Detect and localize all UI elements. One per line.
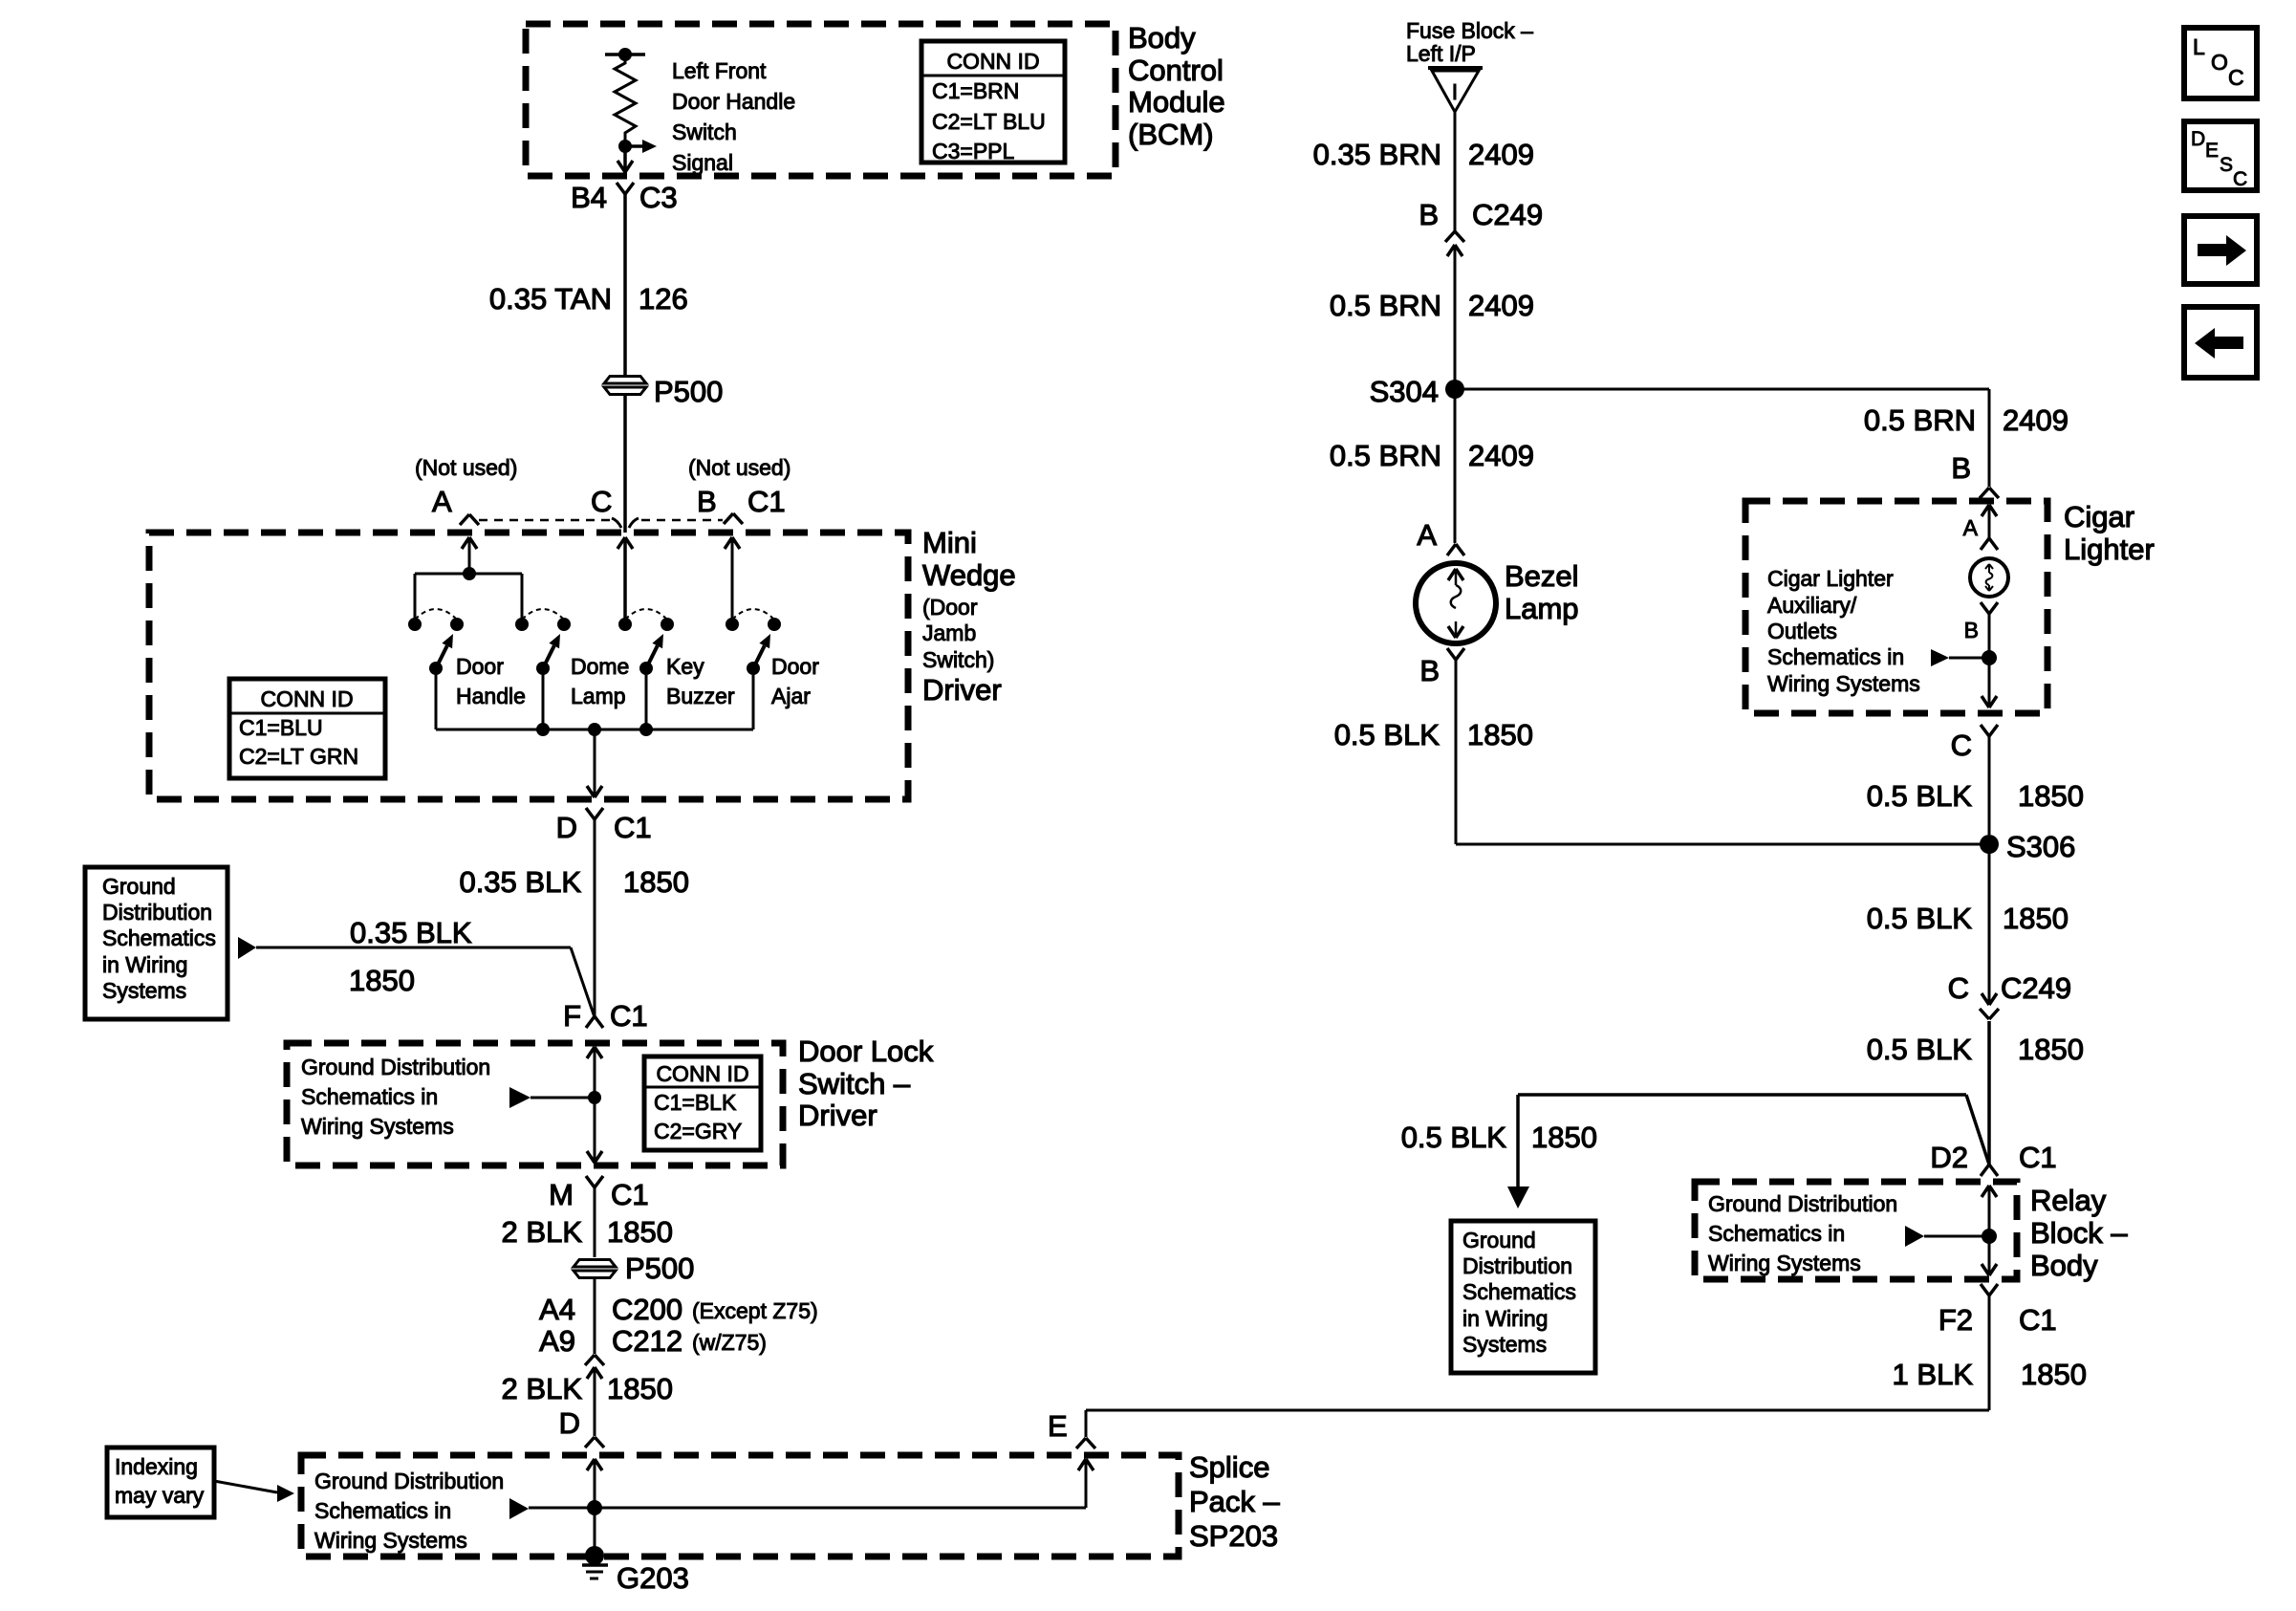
svg-text:0.5 BLK: 0.5 BLK <box>1867 779 1973 813</box>
wire: pin B4 down to P500 (0.35 TAN 126) <box>623 194 627 377</box>
svg-text:Pack –: Pack – <box>1189 1485 1281 1518</box>
svg-text:Systems: Systems <box>1462 1332 1547 1357</box>
svg-text:I: I <box>1452 79 1458 104</box>
Indexing may vary box <box>107 1448 214 1517</box>
CONN ID table (Mini Wedge) <box>229 679 385 778</box>
svg-text:D: D <box>559 1406 580 1440</box>
svg-text:CONN ID: CONN ID <box>656 1061 748 1086</box>
splice pack pin E <box>1048 1409 1095 1448</box>
svg-text:Wiring Systems: Wiring Systems <box>1767 671 1920 696</box>
wire: S304 to bezel lamp (0.5 BRN 2409) <box>1454 245 1457 543</box>
label: 0.5 BRN 2409 second <box>1330 439 1534 472</box>
svg-text:Driver: Driver <box>922 673 1002 707</box>
signal arrow inside BCM <box>625 140 657 153</box>
svg-text:C1=BLK: C1=BLK <box>654 1090 737 1115</box>
svg-text:1850: 1850 <box>2021 1358 2087 1391</box>
svg-text:(Not used): (Not used) <box>688 455 791 480</box>
svg-text:B: B <box>697 485 717 518</box>
svg-text:E: E <box>1048 1409 1068 1443</box>
svg-text:Switch –: Switch – <box>798 1067 911 1100</box>
cigar lighter pin B chevron <box>1980 488 1999 498</box>
svg-text:Mini: Mini <box>922 526 977 559</box>
svg-text:1850: 1850 <box>623 865 689 899</box>
svg-text:Lighter: Lighter <box>2064 533 2155 566</box>
svg-text:1850: 1850 <box>349 964 415 997</box>
svg-text:Jamb: Jamb <box>922 620 976 645</box>
cigar lighter pin A label <box>1963 515 1979 540</box>
svg-text:Outlets: Outlets <box>1767 619 1837 643</box>
svg-text:F: F <box>563 999 581 1033</box>
label: 0.5 BLK 1850 (above S306) <box>1867 779 2084 813</box>
label: 0.35 BLK 1850 <box>459 865 689 899</box>
svg-text:Handle: Handle <box>456 684 526 708</box>
grommet P500 (upper) <box>604 375 723 408</box>
internal reference arrow (Cigar Lighter) <box>1931 649 1989 666</box>
internal reference arrow (Relay Block) <box>1905 1226 1989 1247</box>
cigar lighter pin A entry arrow <box>1982 505 1997 538</box>
label: Dome Lamp <box>571 654 629 708</box>
svg-text:1 BLK: 1 BLK <box>1893 1358 1974 1391</box>
bezel lamp pin B <box>1419 648 1464 687</box>
cigar lighter internal connector fork <box>1981 538 1998 550</box>
pin A label <box>432 485 452 518</box>
LOC icon box <box>2184 28 2257 98</box>
svg-text:Ground: Ground <box>1462 1228 1536 1252</box>
label: 0.35 BRN 2409 <box>1313 138 1534 171</box>
splice S306 <box>1980 830 2075 863</box>
label: (Not used) left <box>415 455 517 480</box>
ground bus wire inside Mini Wedge <box>436 723 753 736</box>
wire: bezel lamp B to S306 (0.5 BLK 1850) <box>1456 660 1989 844</box>
svg-text:C200: C200 <box>612 1293 682 1326</box>
svg-text:B: B <box>1419 198 1439 231</box>
svg-text:Wiring Systems: Wiring Systems <box>1708 1251 1861 1275</box>
cigar lighter element <box>1970 558 2008 597</box>
svg-text:Bezel: Bezel <box>1505 559 1579 593</box>
switch: Door Ajar <box>726 609 781 729</box>
svg-text:E: E <box>2205 140 2219 162</box>
svg-text:0.35 BLK: 0.35 BLK <box>350 916 472 949</box>
svg-text:in Wiring: in Wiring <box>1462 1306 1548 1331</box>
svg-text:Wiring Systems: Wiring Systems <box>314 1528 467 1553</box>
svg-text:Switch: Switch <box>672 120 737 144</box>
connector pin B of C249 <box>1419 198 1543 256</box>
svg-text:C249: C249 <box>1472 198 1543 231</box>
svg-text:0.35 TAN: 0.35 TAN <box>489 282 612 316</box>
label: A9 C212 (w/Z75) <box>539 1324 767 1358</box>
svg-text:Buzzer: Buzzer <box>666 684 735 708</box>
svg-text:in Wiring: in Wiring <box>102 952 187 977</box>
svg-text:Left Front: Left Front <box>672 58 767 83</box>
svg-text:C: C <box>591 485 612 518</box>
wire: bus down to pin D with arrowhead <box>587 729 602 797</box>
label: 0.5 BRN 2409 (above S304) <box>1330 289 1534 322</box>
label: Door Lock Switch - Driver <box>798 1034 934 1132</box>
svg-text:Switch): Switch) <box>922 647 994 672</box>
Ground Distribution Schematics reference box (right) <box>1451 1221 1595 1373</box>
internal splice wire to pin E <box>509 1459 1094 1519</box>
svg-text:Body: Body <box>2030 1249 2098 1282</box>
svg-text:0.35 BRN: 0.35 BRN <box>1313 138 1441 171</box>
svg-text:C: C <box>1948 971 1969 1005</box>
wire: fuse block to C249 (0.35 BRN 2409) <box>1454 112 1457 231</box>
switch: Key Buzzer <box>618 609 674 729</box>
svg-text:Auxiliary/: Auxiliary/ <box>1767 593 1857 618</box>
svg-text:A: A <box>1963 515 1979 540</box>
bezel lamp pin A <box>1417 518 1464 555</box>
svg-text:CONN ID: CONN ID <box>260 686 353 711</box>
label: 0.5 BLK 1850 (branch) <box>1401 1121 1597 1154</box>
svg-text:Cigar Lighter: Cigar Lighter <box>1767 566 1894 591</box>
Splice Pack SP203 outline box <box>301 1455 1179 1557</box>
connector pin M of C1 <box>549 1176 648 1211</box>
svg-text:S306: S306 <box>2006 830 2075 863</box>
splice pack pin D chevron <box>585 1437 604 1448</box>
Door Lock Switch - Driver outline box <box>287 1043 783 1165</box>
svg-text:2409: 2409 <box>1468 289 1534 322</box>
svg-text:Dome: Dome <box>571 654 629 679</box>
svg-text:C: C <box>1951 729 1972 762</box>
arrowhead down to pin B4 <box>617 161 633 172</box>
wire: branch to ground distribution reference <box>1507 1095 1989 1208</box>
svg-text:may vary: may vary <box>115 1483 205 1508</box>
svg-text:Wiring Systems: Wiring Systems <box>301 1114 454 1139</box>
svg-text:B: B <box>1964 618 1979 642</box>
Ground Distribution Schematics reference box (left) <box>85 867 227 1019</box>
svg-text:Key: Key <box>666 654 704 679</box>
svg-text:Cigar: Cigar <box>2064 500 2134 533</box>
svg-text:Control: Control <box>1128 54 1224 87</box>
connector pin D2 of C1 <box>1930 1141 2056 1176</box>
svg-text:1850: 1850 <box>607 1372 673 1405</box>
label: 0.35 BLK (branch) <box>350 916 472 949</box>
svg-text:A: A <box>432 485 452 518</box>
svg-text:F2: F2 <box>1939 1303 1973 1337</box>
switch: Door Handle <box>408 609 464 729</box>
wire through Door Lock Switch with entry/exit arrows <box>587 1047 602 1163</box>
svg-text:Lamp: Lamp <box>1505 592 1579 625</box>
svg-text:C2=GRY: C2=GRY <box>654 1119 742 1143</box>
svg-text:S304: S304 <box>1370 375 1439 408</box>
label: Door Ajar <box>771 654 819 708</box>
internal reference arrow (Door Lock) <box>509 1087 595 1108</box>
label: 2 BLK 1850 (upper) <box>502 1215 673 1249</box>
wire: ground distribution branch (0.35 BLK 1850) <box>238 937 595 1017</box>
wire: D to F (0.35 BLK 1850) <box>594 819 596 1017</box>
wire through Relay Block with entry/exit arrows <box>1982 1186 1997 1275</box>
thin dashed connector line across pins <box>479 519 723 522</box>
pin C wire entry bushing <box>612 518 639 528</box>
label: Fuse Block - Left I/P <box>1406 18 1533 66</box>
label: Ground Distribution Schematics in Wiring Systems (Door Lock) <box>301 1055 490 1139</box>
svg-text:2409: 2409 <box>1468 138 1534 171</box>
svg-text:P500: P500 <box>625 1252 694 1285</box>
svg-text:C3: C3 <box>639 181 678 214</box>
fuse block feed triangle <box>1428 68 1483 112</box>
svg-text:D: D <box>2191 128 2205 150</box>
wire: cigar element to pin C with exit arrow <box>1982 614 1997 708</box>
wire: pin D entry arrow down to G203 <box>587 1459 602 1550</box>
svg-text:P500: P500 <box>654 375 723 408</box>
svg-text:C: C <box>2228 65 2244 90</box>
svg-text:Driver: Driver <box>798 1099 877 1132</box>
svg-text:D2: D2 <box>1930 1141 1968 1174</box>
Cigar Lighter outline box <box>1745 501 2047 713</box>
svg-text:Schematics in: Schematics in <box>301 1084 438 1109</box>
svg-text:S: S <box>2220 154 2233 176</box>
Relay Block - Body outline box <box>1695 1182 2017 1279</box>
svg-text:Fuse Block –: Fuse Block – <box>1406 18 1533 43</box>
svg-text:Schematics in: Schematics in <box>314 1498 451 1523</box>
svg-text:C1: C1 <box>614 811 652 844</box>
svg-text:2409: 2409 <box>2003 403 2069 437</box>
svg-text:C2=LT BLU: C2=LT BLU <box>932 109 1046 134</box>
svg-text:Left I/P: Left I/P <box>1406 41 1476 66</box>
Mini Wedge (Door Jamb Switch) outline box <box>149 533 908 799</box>
switch: Dome Lamp <box>515 609 571 729</box>
pin C label <box>591 485 612 518</box>
svg-text:B: B <box>1951 451 1971 485</box>
svg-text:G203: G203 <box>617 1561 689 1595</box>
wire: S306 to C249 (0.5 BLK 1850) <box>1988 844 1991 992</box>
label: 2 BLK 1850 (lower) <box>502 1372 673 1405</box>
next page arrow icon <box>2184 216 2257 284</box>
label: Mini Wedge (Door Jamb Switch) Driver <box>922 526 1016 707</box>
svg-text:1850: 1850 <box>2003 902 2069 935</box>
svg-text:Ground Distribution: Ground Distribution <box>1708 1191 1897 1216</box>
wire: S304 branch to cigar lighter pin B <box>1455 389 1989 487</box>
svg-text:126: 126 <box>639 282 688 316</box>
svg-text:Distribution: Distribution <box>1462 1253 1572 1278</box>
svg-text:D: D <box>556 811 577 844</box>
label: Left Front Door Handle Switch Signal <box>672 58 795 175</box>
label: 1 BLK 1850 <box>1893 1358 2087 1391</box>
svg-text:0.5 BRN: 0.5 BRN <box>1330 439 1441 472</box>
svg-text:Lamp: Lamp <box>571 684 626 708</box>
svg-text:1850: 1850 <box>2018 1033 2084 1066</box>
svg-text:(Not used): (Not used) <box>415 455 517 480</box>
in-line connector C200/C212 <box>585 1355 604 1379</box>
label: 0.5 BLK 1850 (bezel) <box>1334 718 1533 751</box>
splice pack pin D label <box>559 1406 580 1440</box>
splice S304 <box>1370 375 1464 408</box>
CONN ID table (Door Lock) <box>644 1056 761 1150</box>
svg-text:SP203: SP203 <box>1189 1519 1278 1553</box>
wire: M to P500 (2 BLK 1850) <box>594 1187 596 1257</box>
Body Control Module (BCM) outline box <box>526 24 1116 176</box>
wire: P500 to Mini Wedge pin C <box>623 394 627 533</box>
arrow: Key Buzzer contact up to pin C <box>617 537 633 619</box>
svg-text:0.5 BRN: 0.5 BRN <box>1864 403 1976 437</box>
cigar lighter pin C <box>1951 725 1998 762</box>
svg-text:(Door: (Door <box>922 595 978 620</box>
wire: C249 to S304 (0.5 BRN 2409) <box>1454 245 1457 389</box>
pin B chevron <box>724 513 743 524</box>
svg-text:Module: Module <box>1128 85 1225 119</box>
DESC icon box <box>2184 121 2257 190</box>
svg-text:2 BLK: 2 BLK <box>502 1372 583 1405</box>
svg-text:C249: C249 <box>2001 971 2071 1005</box>
svg-text:Signal: Signal <box>672 150 733 175</box>
svg-text:B: B <box>1419 654 1440 687</box>
svg-text:1850: 1850 <box>607 1215 673 1249</box>
label: Ground Distribution Schematics in Wiring Systems (Relay Block) <box>1708 1191 1897 1275</box>
previous page arrow icon <box>2184 307 2257 378</box>
svg-text:C1: C1 <box>747 485 786 518</box>
svg-text:Door: Door <box>771 654 819 679</box>
svg-text:Indexing: Indexing <box>115 1454 198 1479</box>
connector pin B4 of C3 <box>571 181 678 214</box>
wire: F2 to splice pack pin E (1 BLK 1850) <box>1086 1295 1989 1437</box>
svg-text:CONN ID: CONN ID <box>946 49 1039 74</box>
label: Key Buzzer <box>666 654 735 708</box>
svg-text:Wedge: Wedge <box>922 558 1016 592</box>
svg-text:1850: 1850 <box>1467 718 1533 751</box>
grommet P500 (lower) <box>574 1252 694 1285</box>
svg-text:(BCM): (BCM) <box>1128 118 1214 151</box>
svg-text:Distribution: Distribution <box>102 900 212 925</box>
label: (Not used) right <box>688 455 791 480</box>
svg-text:0.5 BLK: 0.5 BLK <box>1334 718 1440 751</box>
resistor: Left Front Door Handle Switch (pull-up) <box>605 48 645 176</box>
svg-text:Ground: Ground <box>102 874 176 899</box>
pin B label <box>697 485 717 518</box>
svg-text:C1: C1 <box>611 1178 649 1211</box>
arrow: Indexing box to Splice Pack <box>214 1481 294 1502</box>
svg-text:2 BLK: 2 BLK <box>502 1215 583 1249</box>
svg-text:1850: 1850 <box>2018 779 2084 813</box>
bracket wire to Door Handle and Dome Lamp switches <box>415 567 522 624</box>
svg-text:1850: 1850 <box>1531 1121 1597 1154</box>
connector C1 label (top) <box>747 485 786 518</box>
svg-text:(Except Z75): (Except Z75) <box>692 1298 818 1323</box>
label: 0.35 TAN 126 <box>489 282 688 316</box>
wire: P500 to C200/C212 connector <box>594 1277 596 1354</box>
arrow to pin A from switch bracket <box>462 537 477 574</box>
wire: pin C to S306 (0.5 BLK 1850) <box>1988 736 1991 835</box>
label: Door Handle <box>456 654 526 708</box>
svg-text:Splice: Splice <box>1189 1450 1269 1484</box>
svg-text:L: L <box>2193 34 2205 59</box>
connector pin D of C1 <box>556 808 652 844</box>
svg-text:Schematics in: Schematics in <box>1708 1221 1845 1246</box>
label: 1850 (branch) <box>349 964 415 997</box>
svg-text:2409: 2409 <box>1468 439 1534 472</box>
cigar lighter pin B fork <box>1964 602 1998 642</box>
svg-text:A9: A9 <box>539 1324 575 1358</box>
svg-text:C3=PPL: C3=PPL <box>932 139 1015 163</box>
svg-text:Body: Body <box>1128 21 1196 54</box>
svg-text:0.5 BLK: 0.5 BLK <box>1401 1121 1507 1154</box>
svg-text:C1=BRN: C1=BRN <box>932 78 1019 103</box>
cigar lighter pin B label <box>1951 451 1971 485</box>
label: 0.5 BRN 2409 (branch) <box>1864 403 2069 437</box>
connector pin C of C249 (lower) <box>1948 971 2072 1019</box>
svg-text:C212: C212 <box>612 1324 682 1358</box>
svg-text:Ground Distribution: Ground Distribution <box>301 1055 490 1079</box>
svg-text:C1: C1 <box>2019 1141 2057 1174</box>
svg-text:C: C <box>2233 168 2247 190</box>
svg-text:(w/Z75): (w/Z75) <box>692 1330 767 1355</box>
svg-text:0.5 BLK: 0.5 BLK <box>1867 902 1973 935</box>
svg-text:A: A <box>1417 518 1437 552</box>
label: 0.5 BLK 1850 (above relay) <box>1867 1033 2084 1066</box>
connector pin F2 of C1 <box>1939 1284 2057 1337</box>
label: Relay Block - Body <box>2030 1184 2128 1282</box>
svg-text:C1=BLU: C1=BLU <box>239 715 323 740</box>
label: A4 C200 (Except Z75) <box>539 1293 818 1326</box>
label: Ground Distribution Schematics in Wiring Systems (Splice Pack) <box>314 1469 504 1553</box>
label: Cigar Lighter Auxiliary/Outlets Schematics in Wiring Systems <box>1767 566 1920 696</box>
pin A chevron <box>460 514 479 525</box>
label: 0.5 BLK 1850 (below S306) <box>1867 902 2069 935</box>
svg-text:Schematics: Schematics <box>1462 1279 1576 1304</box>
svg-text:C2=LT GRN: C2=LT GRN <box>239 744 358 769</box>
wire: C249 to relay block (0.5 BLK 1850) <box>1987 1021 1991 1165</box>
svg-text:Block –: Block – <box>2030 1216 2128 1250</box>
ground G203 <box>582 1546 689 1595</box>
arrow: Door Ajar contact up to pin B <box>725 537 740 619</box>
wire: connector down to splice pack pin D <box>594 1367 596 1436</box>
svg-text:C1: C1 <box>2019 1303 2057 1337</box>
svg-text:Door Lock: Door Lock <box>798 1034 934 1068</box>
label: Cigar Lighter <box>2064 500 2155 566</box>
CONN ID table (BCM) <box>921 41 1065 163</box>
label: Bezel Lamp <box>1505 559 1579 625</box>
label: Body Control Module (BCM) <box>1128 21 1225 151</box>
svg-text:Door Handle: Door Handle <box>672 89 795 114</box>
svg-text:Systems: Systems <box>102 978 186 1003</box>
svg-text:Ground Distribution: Ground Distribution <box>314 1469 504 1493</box>
svg-text:Schematics in: Schematics in <box>1767 644 1904 669</box>
connector pin F of C1 <box>563 999 648 1033</box>
svg-text:0.35 BLK: 0.35 BLK <box>459 865 581 899</box>
svg-text:0.5 BRN: 0.5 BRN <box>1330 289 1441 322</box>
svg-text:Door: Door <box>456 654 504 679</box>
svg-text:O: O <box>2211 50 2228 75</box>
svg-text:Schematics: Schematics <box>102 925 216 950</box>
svg-text:M: M <box>549 1178 574 1211</box>
svg-text:0.5 BLK: 0.5 BLK <box>1867 1033 1973 1066</box>
svg-text:A4: A4 <box>539 1293 575 1326</box>
bezel lamp <box>1416 563 1496 643</box>
svg-text:B4: B4 <box>571 181 607 214</box>
svg-text:Ajar: Ajar <box>771 684 811 708</box>
label: Splice Pack - SP203 <box>1189 1450 1281 1553</box>
svg-text:C1: C1 <box>610 999 648 1033</box>
svg-text:Relay: Relay <box>2030 1184 2107 1217</box>
